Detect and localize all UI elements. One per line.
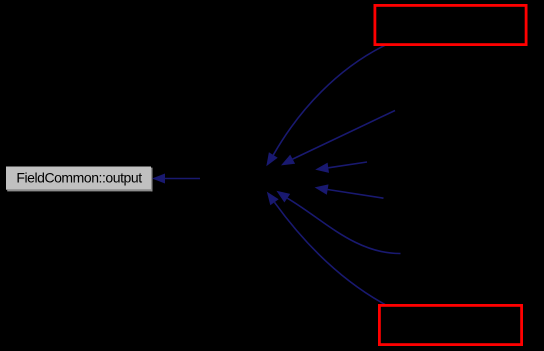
edge B: hidden node -> center node (straight) (281, 111, 395, 166)
truncated caller node (red border, bottom) (379, 305, 521, 344)
edge A: top red node -> center node (curved) (266, 45, 385, 166)
edge center node -> FieldCommon::output (152, 174, 200, 184)
edge D: hidden node -> center node (short straight) (315, 184, 384, 198)
edge C: hidden node -> center node (short straight) (315, 162, 367, 173)
truncated caller node (red border, top) (375, 5, 526, 44)
edge E: hidden node -> center node (gentle curve) (276, 191, 400, 254)
node FieldCommon::output (grey current node) (6, 167, 153, 192)
svg-text:FieldCommon::output: FieldCommon::output (16, 170, 142, 186)
edge F: bottom red node -> center node (curved) (267, 192, 385, 305)
